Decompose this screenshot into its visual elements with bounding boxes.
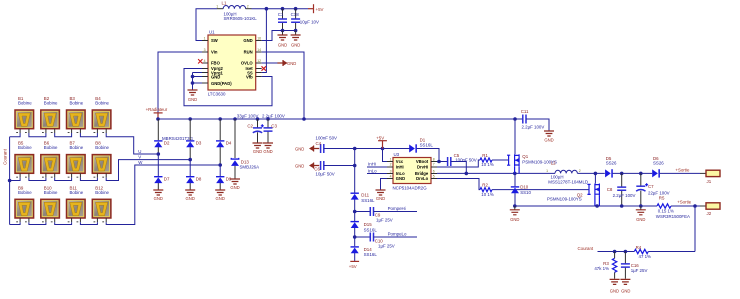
svg-text:C8: C8 — [607, 187, 613, 192]
svg-text:GND: GND — [291, 42, 300, 47]
junction star bus row2 — [8, 179, 12, 183]
svg-text:3: 3 — [390, 170, 392, 174]
svg-text:47k 1%: 47k 1% — [594, 266, 609, 271]
diode D6 — [652, 156, 664, 177]
connector J1 — [700, 170, 720, 184]
svg-text:Bobine: Bobine — [70, 101, 84, 106]
svg-text:InLo: InLo — [368, 168, 377, 173]
diode D1 — [409, 138, 433, 153]
svg-text:WSR3R1500FEA: WSR3R1500FEA — [656, 214, 690, 219]
junction at C7 top — [639, 172, 643, 176]
svg-text:D13: D13 — [241, 159, 250, 164]
diode D15 — [351, 221, 378, 232]
svg-text:GND: GND — [278, 42, 287, 47]
junction W at D4 column — [218, 163, 222, 167]
wire coil row3 series links — [10, 222, 98, 224]
svg-text:V: V — [138, 155, 141, 160]
svg-text:SRR0605-101KL: SRR0605-101KL — [224, 16, 258, 21]
junction bus at Q2 source — [595, 204, 599, 208]
svg-text:U1: U1 — [209, 30, 215, 35]
ground symbol on bus at C7 — [636, 206, 646, 222]
ground symbol under U3 — [376, 190, 386, 201]
svg-text:DrvHi: DrvHi — [417, 165, 428, 170]
svg-text:+5V: +5V — [316, 7, 324, 12]
svg-text:GND: GND — [295, 146, 304, 151]
svg-text:J1: J1 — [707, 179, 712, 184]
ground symbol under C1 — [278, 31, 288, 48]
wire R1 to Q1 gate — [492, 159, 509, 161]
resistor R3 — [594, 252, 616, 279]
svg-text:D7: D7 — [164, 177, 170, 182]
wire R4 to J2 column — [648, 251, 695, 253]
svg-text:InHi: InHi — [396, 165, 404, 170]
svg-text:FBO: FBO — [211, 61, 221, 66]
junction VBoot at D1 — [437, 160, 441, 164]
svg-text:10µF 50V: 10µF 50V — [316, 171, 335, 176]
wire Courant sense net — [598, 251, 635, 253]
power port +5V top — [308, 4, 324, 13]
junction at Q2 drain — [594, 172, 598, 176]
junction U at D2 column — [157, 152, 161, 156]
svg-text:+Sortie: +Sortie — [677, 200, 692, 205]
junction +5V node at Vcc — [381, 147, 385, 151]
svg-text:C4: C4 — [316, 141, 322, 146]
junction bus at C7 — [639, 204, 643, 208]
svg-text:GND: GND — [188, 97, 197, 102]
capacitor C9 — [355, 207, 417, 222]
resistor R2 — [480, 183, 494, 197]
svg-text:GND: GND — [510, 217, 519, 222]
svg-text:0.15 1%: 0.15 1% — [658, 209, 674, 214]
svg-text:Bobine: Bobine — [95, 145, 109, 150]
wire D5 to D6 — [613, 172, 653, 174]
svg-text:GND: GND — [230, 185, 239, 190]
capacitor C18 — [291, 9, 319, 31]
wire bottom GND bus — [515, 205, 657, 207]
capacitor C3 — [262, 113, 285, 143]
wire U1 GND pin16 to C1/C18 bottoms — [262, 31, 296, 41]
svg-text:D11: D11 — [361, 193, 369, 198]
svg-text:Q1: Q1 — [522, 154, 528, 159]
junction at C18 bottom — [294, 29, 298, 33]
capacitor C1 — [278, 9, 287, 31]
resistor R4 — [634, 245, 651, 259]
resistor R5 shunt — [656, 196, 690, 220]
ground symbol right of C11 — [544, 131, 554, 142]
junction rail at D2/Vin — [156, 117, 160, 121]
svg-text:SS16L: SS16L — [364, 252, 378, 257]
wire InLo stub — [367, 173, 387, 175]
svg-text:100nF 50V: 100nF 50V — [455, 158, 477, 163]
svg-text:SS16L: SS16L — [364, 227, 378, 232]
inductor L2 — [546, 161, 588, 185]
junction +5V node at pump column — [353, 147, 357, 151]
power port GND arrow at C4 — [295, 146, 319, 152]
ground symbol under R3 — [610, 279, 620, 293]
connector J2 — [700, 203, 720, 216]
junction GND PAD bundle — [191, 81, 195, 85]
svg-text:R2: R2 — [482, 183, 488, 188]
wire Vin net down to +Radiateur rail — [158, 52, 202, 119]
svg-text:D14: D14 — [364, 247, 373, 252]
ground symbol under C3 — [263, 143, 273, 154]
wire R5 to J2 — [671, 205, 700, 207]
svg-text:SS26: SS26 — [606, 161, 617, 166]
ground symbol under U1 — [188, 90, 198, 102]
diode D4 — [216, 119, 232, 165]
svg-text:4: 4 — [390, 175, 392, 179]
wire coil row2 series links — [10, 178, 98, 181]
svg-text:C18: C18 — [291, 12, 300, 17]
junction rail at Q1 — [513, 117, 517, 121]
svg-text:D2: D2 — [164, 140, 170, 145]
svg-text:Bobine: Bobine — [44, 145, 58, 150]
junction rail at D13 — [233, 117, 237, 121]
wire switch column with D10 — [514, 173, 516, 206]
junction rail at C3 — [266, 117, 270, 121]
svg-text:GND: GND — [376, 196, 385, 201]
coil B3 — [67, 96, 86, 133]
junction pump at C10 — [353, 235, 357, 239]
svg-text:2: 2 — [390, 163, 392, 167]
svg-text:D15: D15 — [364, 222, 373, 227]
capacitor C11 — [521, 109, 545, 129]
svg-text:PompeHi: PompeHi — [388, 206, 406, 211]
capacitor C7 polarized — [636, 173, 670, 206]
junction Bridge at C5 — [465, 172, 469, 176]
svg-text:Bobine: Bobine — [95, 101, 109, 106]
wire D6 to J1 — [660, 172, 700, 174]
wire Vcc to +5V node — [383, 149, 388, 162]
ground symbol under C16 — [620, 279, 630, 293]
wire InHi stub — [367, 166, 387, 168]
wire net U from B4 to rectifier — [106, 133, 158, 154]
coil B8 — [92, 141, 111, 178]
wire J2 node down to R4 — [694, 206, 696, 252]
wire +5V node at U3 — [324, 148, 410, 150]
no-ERC marker on Iset pin — [262, 66, 266, 70]
svg-text:L2: L2 — [551, 161, 556, 166]
coil B2 — [41, 96, 60, 133]
junction pump at C6 — [353, 164, 357, 168]
svg-text:R1: R1 — [482, 153, 488, 158]
svg-text:6: 6 — [433, 170, 435, 174]
svg-text:GND: GND — [287, 61, 296, 66]
op-amp U3 NCP5104 gate driver — [387, 152, 437, 190]
svg-text:7: 7 — [433, 163, 435, 167]
svg-text:LTC3630: LTC3630 — [208, 91, 226, 96]
svg-text:U3: U3 — [394, 152, 400, 157]
svg-text:Bobine: Bobine — [18, 145, 32, 150]
coil B7 — [67, 141, 86, 178]
wire C6 to +5V column — [324, 165, 355, 167]
svg-text:VBoot: VBoot — [416, 159, 429, 164]
svg-text:RUN: RUN — [244, 50, 253, 55]
wire Q1 drain from rail — [514, 119, 516, 154]
svg-text:5: 5 — [433, 175, 435, 179]
svg-text:D8: D8 — [196, 177, 202, 182]
svg-text:Vfb: Vfb — [246, 74, 253, 79]
ground symbol under D8 — [185, 190, 195, 201]
diode D14 — [351, 246, 378, 257]
wire R2 to Q2 gate — [492, 189, 589, 191]
ground symbol under C18 — [291, 31, 301, 48]
svg-text:1µF 25V: 1µF 25V — [631, 268, 648, 273]
wire +5V rail: L1 pin2 to +5V power port — [246, 8, 252, 10]
wire Q2 drain — [594, 173, 596, 183]
coil B1 — [15, 96, 34, 133]
wire Bridge net — [437, 172, 555, 174]
svg-text:R4: R4 — [636, 245, 642, 250]
svg-text:SS16L: SS16L — [361, 198, 375, 203]
wire RUN net to +Radiateur rail — [262, 52, 304, 119]
svg-text:GND: GND — [186, 196, 195, 201]
wire D1 cathode to VBoot — [417, 149, 439, 162]
svg-text:1: 1 — [216, 5, 218, 9]
svg-text:J2: J2 — [707, 211, 712, 216]
svg-text:1µF 25V: 1µF 25V — [378, 243, 395, 248]
junction Courant at R3 — [613, 250, 617, 254]
capacitor C8 — [607, 173, 636, 206]
svg-text:C3: C3 — [271, 123, 277, 128]
svg-text:2: 2 — [579, 169, 581, 173]
svg-text:8: 8 — [433, 158, 435, 162]
svg-text:C2: C2 — [247, 123, 253, 128]
ground symbol under C2 — [253, 143, 263, 154]
svg-text:GND: GND — [544, 137, 553, 142]
svg-text:MSS1278T-104MLD: MSS1278T-104MLD — [548, 180, 588, 185]
svg-text:16: 16 — [257, 36, 261, 40]
svg-text:L1: L1 — [222, 1, 227, 6]
svg-text:D4: D4 — [226, 140, 232, 145]
power port +5V mid — [376, 135, 387, 148]
svg-text:GND: GND — [396, 176, 405, 181]
inductor L1 — [216, 1, 257, 21]
svg-text:D10: D10 — [520, 185, 529, 190]
capacitor C10 — [355, 233, 417, 249]
svg-text:Courant: Courant — [2, 148, 7, 164]
wire Courant star bus on left — [9, 137, 11, 225]
resistor R1 — [480, 153, 494, 167]
svg-text:R5: R5 — [659, 196, 665, 201]
wire L2 to D5 — [577, 172, 604, 174]
power port +5V at D14 — [349, 261, 359, 269]
svg-text:SW: SW — [211, 38, 218, 43]
svg-text:GND: GND — [263, 149, 272, 154]
svg-text:2: 2 — [247, 5, 249, 9]
ground symbol under D13 — [230, 179, 240, 190]
svg-text:2.2µF 100V: 2.2µF 100V — [262, 113, 285, 118]
capacitor C5 bootstrap — [437, 153, 477, 173]
transistor Q2 — [547, 184, 599, 207]
wire net W from B12 to rectifier — [106, 165, 220, 225]
svg-text:10 1%: 10 1% — [481, 192, 494, 197]
svg-text:Bobine: Bobine — [44, 190, 58, 195]
wire Vfb feedback loop to Vprg2 — [184, 69, 272, 106]
svg-text:14: 14 — [257, 48, 261, 52]
ground symbol on bus left — [510, 206, 520, 222]
junction on +5V rail at SS branch — [265, 7, 269, 11]
junction rail at D3 — [188, 117, 192, 121]
svg-text:Bobine: Bobine — [95, 190, 109, 195]
wire C11 to ground — [526, 119, 549, 131]
svg-text:OVLO: OVLO — [241, 61, 254, 66]
junction bus at C8 — [620, 204, 624, 208]
diode D3 — [186, 119, 202, 160]
svg-text:InHi: InHi — [368, 161, 376, 166]
coil B6 — [41, 141, 60, 178]
svg-text:SS16L: SS16L — [420, 143, 434, 148]
power port +Radiateur — [146, 107, 168, 119]
junction at C8 top — [620, 172, 624, 176]
svg-text:D3: D3 — [196, 140, 202, 145]
svg-text:DrvLo: DrvLo — [416, 176, 429, 181]
svg-text:10 1%: 10 1% — [481, 162, 494, 167]
coil B11 — [67, 185, 86, 222]
diode D8 — [186, 160, 202, 190]
svg-text:+Radiateur: +Radiateur — [146, 107, 168, 112]
ground symbol under D9 — [215, 190, 225, 201]
svg-text:GND(PAD): GND(PAD) — [211, 81, 232, 86]
wire coil row1 series links — [10, 133, 98, 137]
coil B10 — [41, 185, 60, 222]
svg-text:SS10: SS10 — [520, 190, 531, 195]
svg-text:NCP5104ADR2G: NCP5104ADR2G — [393, 186, 428, 191]
junction V at D3 column — [188, 158, 192, 162]
svg-text:Vin: Vin — [211, 50, 218, 55]
coil B12 — [92, 185, 111, 222]
transistor Q1 — [507, 154, 557, 173]
wire SW net: U1 SW pin to L1 pin1 via top-left corner — [196, 9, 217, 41]
diode D11 — [351, 193, 376, 203]
svg-text:+5V: +5V — [349, 264, 357, 269]
wire charge pump column — [354, 149, 356, 262]
capacitor C4 — [316, 135, 338, 153]
svg-text:GND: GND — [295, 163, 304, 168]
svg-text:PSMN109-100YS: PSMN109-100YS — [547, 196, 582, 201]
svg-text:GND: GND — [154, 196, 163, 201]
svg-text:1: 1 — [204, 36, 206, 40]
svg-text:C1: C1 — [278, 12, 284, 17]
capacitor C6 — [314, 161, 334, 176]
svg-text:47 1%: 47 1% — [639, 254, 652, 259]
wire net V from B8 to rectifier — [106, 160, 190, 181]
junction Bridge at Q1 source — [513, 172, 517, 176]
diode D7 — [154, 154, 170, 190]
coil B5 — [15, 141, 34, 178]
svg-text:3: 3 — [204, 48, 206, 52]
svg-text:10µF 10V: 10µF 10V — [300, 19, 319, 24]
svg-text:4: 4 — [204, 59, 206, 63]
wire U3 GND pin — [381, 179, 388, 191]
junction Vprg1 bundle — [191, 75, 195, 79]
svg-text:Bobine: Bobine — [70, 145, 84, 150]
svg-text:C7: C7 — [648, 184, 654, 189]
diode D9 — [216, 165, 232, 190]
wire +Radiateur rail — [158, 118, 523, 120]
coil B9 — [15, 185, 34, 222]
svg-text:12: 12 — [257, 59, 261, 63]
ground symbol under D7 — [153, 190, 163, 201]
svg-text:SMBJ26A: SMBJ26A — [240, 165, 260, 170]
svg-text:Courant: Courant — [578, 246, 594, 251]
junction on +5V rail at C18 — [294, 7, 298, 11]
svg-text:GND: GND — [636, 217, 645, 222]
junction at C1 bottom — [281, 29, 285, 33]
op-amp U1 LTC3630 buck converter — [202, 30, 262, 97]
junction pump at C9 — [353, 210, 357, 214]
junction Courant at C16 — [624, 250, 628, 254]
diode D2 — [154, 119, 170, 154]
svg-text:GND: GND — [621, 288, 630, 293]
no-ERC marker on FBO pin — [198, 59, 202, 63]
svg-text:Bobine: Bobine — [18, 101, 32, 106]
svg-text:2.2µF 100V: 2.2µF 100V — [613, 193, 636, 198]
wire U1 ground bundle Vprg1/GND/PAD — [193, 73, 203, 91]
svg-text:Vcc: Vcc — [396, 159, 404, 164]
svg-text:GND: GND — [216, 196, 225, 201]
junction rail at D4 — [218, 117, 222, 121]
svg-text:Bobine: Bobine — [70, 190, 84, 195]
svg-text:GND: GND — [243, 38, 252, 43]
diode D10 freewheel — [511, 185, 532, 196]
svg-text:+5V: +5V — [376, 135, 384, 140]
junction rail at C2 — [256, 117, 260, 121]
svg-text:PompeLo: PompeLo — [388, 232, 407, 237]
capacitor C2 polarized — [237, 113, 264, 143]
junction on +5V rail at C1 — [281, 7, 285, 11]
svg-text:100nF 50V: 100nF 50V — [316, 135, 338, 140]
power port GND arrow at C6 — [295, 163, 319, 169]
wire DrvLo to R2 — [437, 179, 480, 190]
junction at J2 branch — [693, 204, 697, 208]
svg-text:GND: GND — [610, 288, 619, 293]
svg-text:+Sortie: +Sortie — [675, 167, 690, 172]
junction rail at RUN — [302, 117, 306, 121]
svg-text:2.2µF 100V: 2.2µF 100V — [522, 125, 545, 130]
svg-text:1: 1 — [390, 158, 392, 162]
svg-text:33µF 100V: 33µF 100V — [237, 113, 259, 118]
junction bus at Q1/D10 column — [513, 204, 517, 208]
svg-text:GND: GND — [211, 74, 220, 79]
svg-text:Bobine: Bobine — [18, 190, 32, 195]
wire DrvHi to R1 — [437, 160, 480, 167]
svg-text:GND: GND — [253, 149, 262, 154]
svg-text:SS26: SS26 — [653, 161, 664, 166]
power port GND arrow at OVLO — [262, 60, 297, 66]
svg-text:C11: C11 — [521, 109, 529, 114]
svg-text:Bobine: Bobine — [44, 101, 58, 106]
wire SS net: +5V rail down to U1 SS pin — [262, 9, 267, 73]
diode D5 — [605, 156, 617, 177]
svg-text:U: U — [138, 149, 141, 154]
capacitor C16 — [621, 252, 648, 279]
zener diode D13 — [231, 119, 259, 179]
coil B4 — [92, 96, 111, 133]
svg-text:1: 1 — [546, 169, 548, 173]
svg-text:1µF 25V: 1µF 25V — [376, 217, 393, 222]
